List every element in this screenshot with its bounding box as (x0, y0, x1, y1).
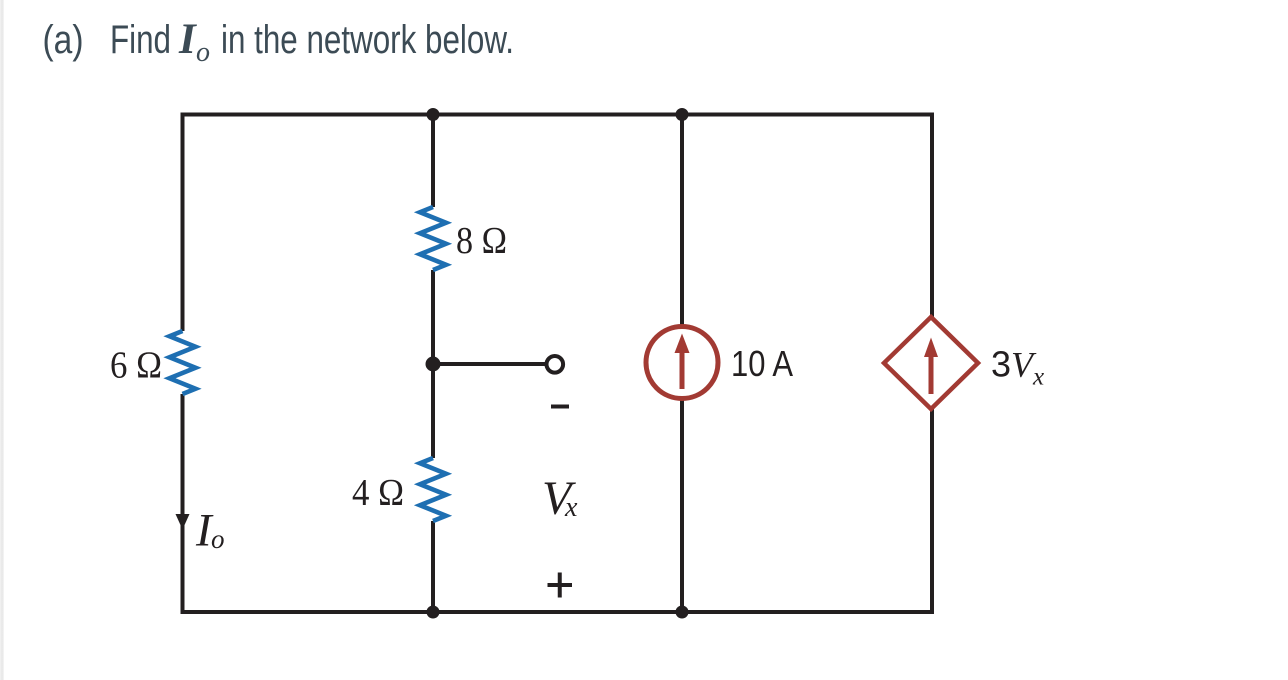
svg-text:3Vx: 3Vx (991, 344, 1044, 391)
svg-text:x: x (564, 492, 578, 523)
svg-text:o: o (196, 37, 210, 68)
svg-text:o: o (211, 524, 225, 554)
svg-text:I: I (178, 16, 197, 63)
svg-text:4 Ω: 4 Ω (352, 472, 404, 514)
svg-text:(a): (a) (43, 18, 84, 62)
svg-text:10 A: 10 A (731, 343, 793, 384)
svg-text:6 Ω: 6 Ω (110, 345, 162, 387)
svg-text:in the network below.: in the network below. (221, 18, 514, 62)
svg-text:8 Ω: 8 Ω (456, 220, 507, 262)
svg-text:Find: Find (110, 18, 171, 62)
